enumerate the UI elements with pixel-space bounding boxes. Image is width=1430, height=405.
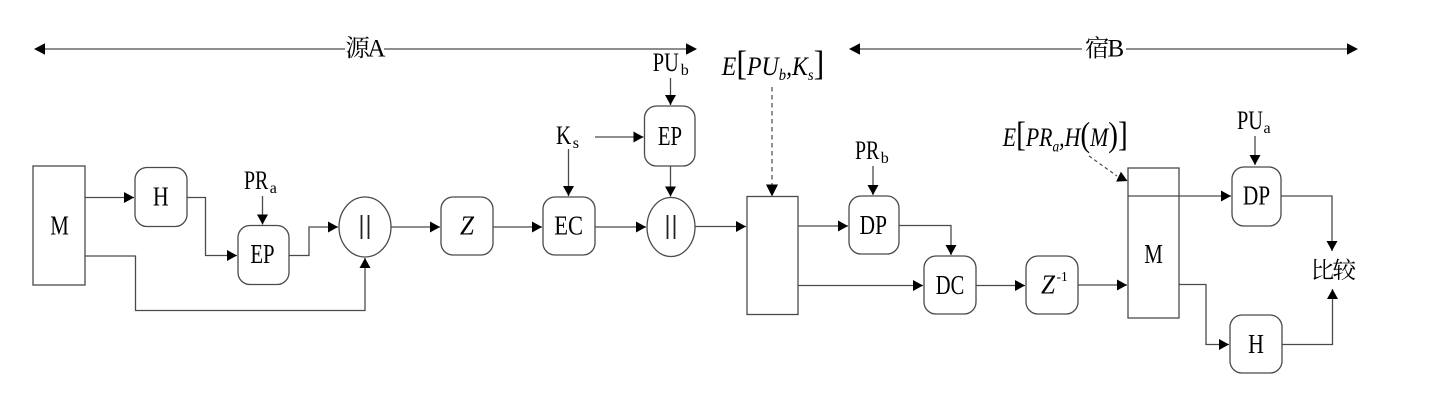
label 宿B [1086,36,1124,63]
svg-text:a: a [1264,120,1271,137]
concat2 combine with encrypted key [647,198,695,257]
wire PRa to EP [262,196,264,225]
svg-text:PR: PR [855,136,880,165]
svg-text:a: a [270,180,277,197]
svg-text:EP: EP [250,239,274,269]
wire Ks to EC [568,149,570,196]
dashed wire E[PUb,Ks] to packet [766,87,778,197]
wire Ks to EP2 [595,136,644,138]
svg-text:M: M [1144,239,1163,269]
svg-text:PU: PU [1237,106,1263,135]
block DP decrypt session key [849,196,899,254]
svg-text:s: s [573,135,579,152]
svg-text:M: M [50,211,69,241]
wire DP2 to compare [1281,196,1332,251]
concat1 combine message and signature [339,197,391,257]
wire PRb to DP [872,166,874,195]
svg-text:PU: PU [653,48,679,77]
svg-text:EP: EP [658,121,682,151]
svg-text:DP: DP [1243,181,1270,211]
svg-text:DC: DC [936,270,965,300]
svg-text:b: b [881,150,889,167]
block DC symmetric decryption [924,256,976,314]
wire PUa to DP2 [1254,136,1256,165]
svg-text:H: H [1248,329,1264,359]
block EC symmetric encryption [543,197,595,255]
block M source message [33,166,85,285]
svg-text:-1: -1 [1057,269,1068,284]
span arrow destination B extent [849,43,1358,55]
svg-text:A: A [368,36,386,63]
block packet transmitted bundle [747,197,798,315]
svg-text:K: K [556,121,571,150]
wire packet to DP [798,225,848,227]
svg-text:B: B [1108,36,1125,63]
svg-text:DP: DP [860,210,887,240]
svg-text:Z: Z [460,211,475,241]
wire Zinv to M2 [1078,284,1127,286]
wire H to EP [187,198,237,256]
wire M to H [85,197,134,199]
block M2 reassembled message [1128,168,1179,318]
svg-text:Z: Z [1041,270,1056,300]
block Zinv decompression [1026,256,1078,314]
block H hash function [135,168,187,227]
wire EC to concat2 [595,226,646,228]
wire DP to DC [899,226,951,256]
wire EP2 to concat2 [670,166,672,197]
span arrow source A extent [34,43,697,55]
wire concat2 to packet [695,226,746,228]
label compare 比较 [1313,258,1355,280]
label 源A [346,36,385,63]
wire concat1 to Z [391,226,440,228]
wire M2 signature part to DP2 [1179,195,1231,197]
svg-text:H: H [153,182,169,212]
wire Z to EC [493,226,542,228]
dashed wire E[PRa,H(M)] to M2 [1089,156,1128,182]
svg-text:PR: PR [244,166,269,195]
block EP2 encrypt session key [645,106,696,166]
wire M2 to H2 [1179,285,1229,345]
wire H2 to compare [1282,289,1333,345]
wire packet to DC [798,285,923,287]
wire M lower branch to concat1 [85,256,365,311]
block EP signature encrypt [238,226,289,285]
block H2 hash function [1230,315,1282,373]
svg-text:EC: EC [554,211,583,241]
wire PUb to EP2 [670,78,672,105]
wire DC to Zinv [976,285,1025,287]
wire EP to concat1 [289,227,338,256]
block Z compression [441,197,493,255]
svg-text:b: b [681,62,689,79]
block DP2 verify signature [1232,167,1281,226]
